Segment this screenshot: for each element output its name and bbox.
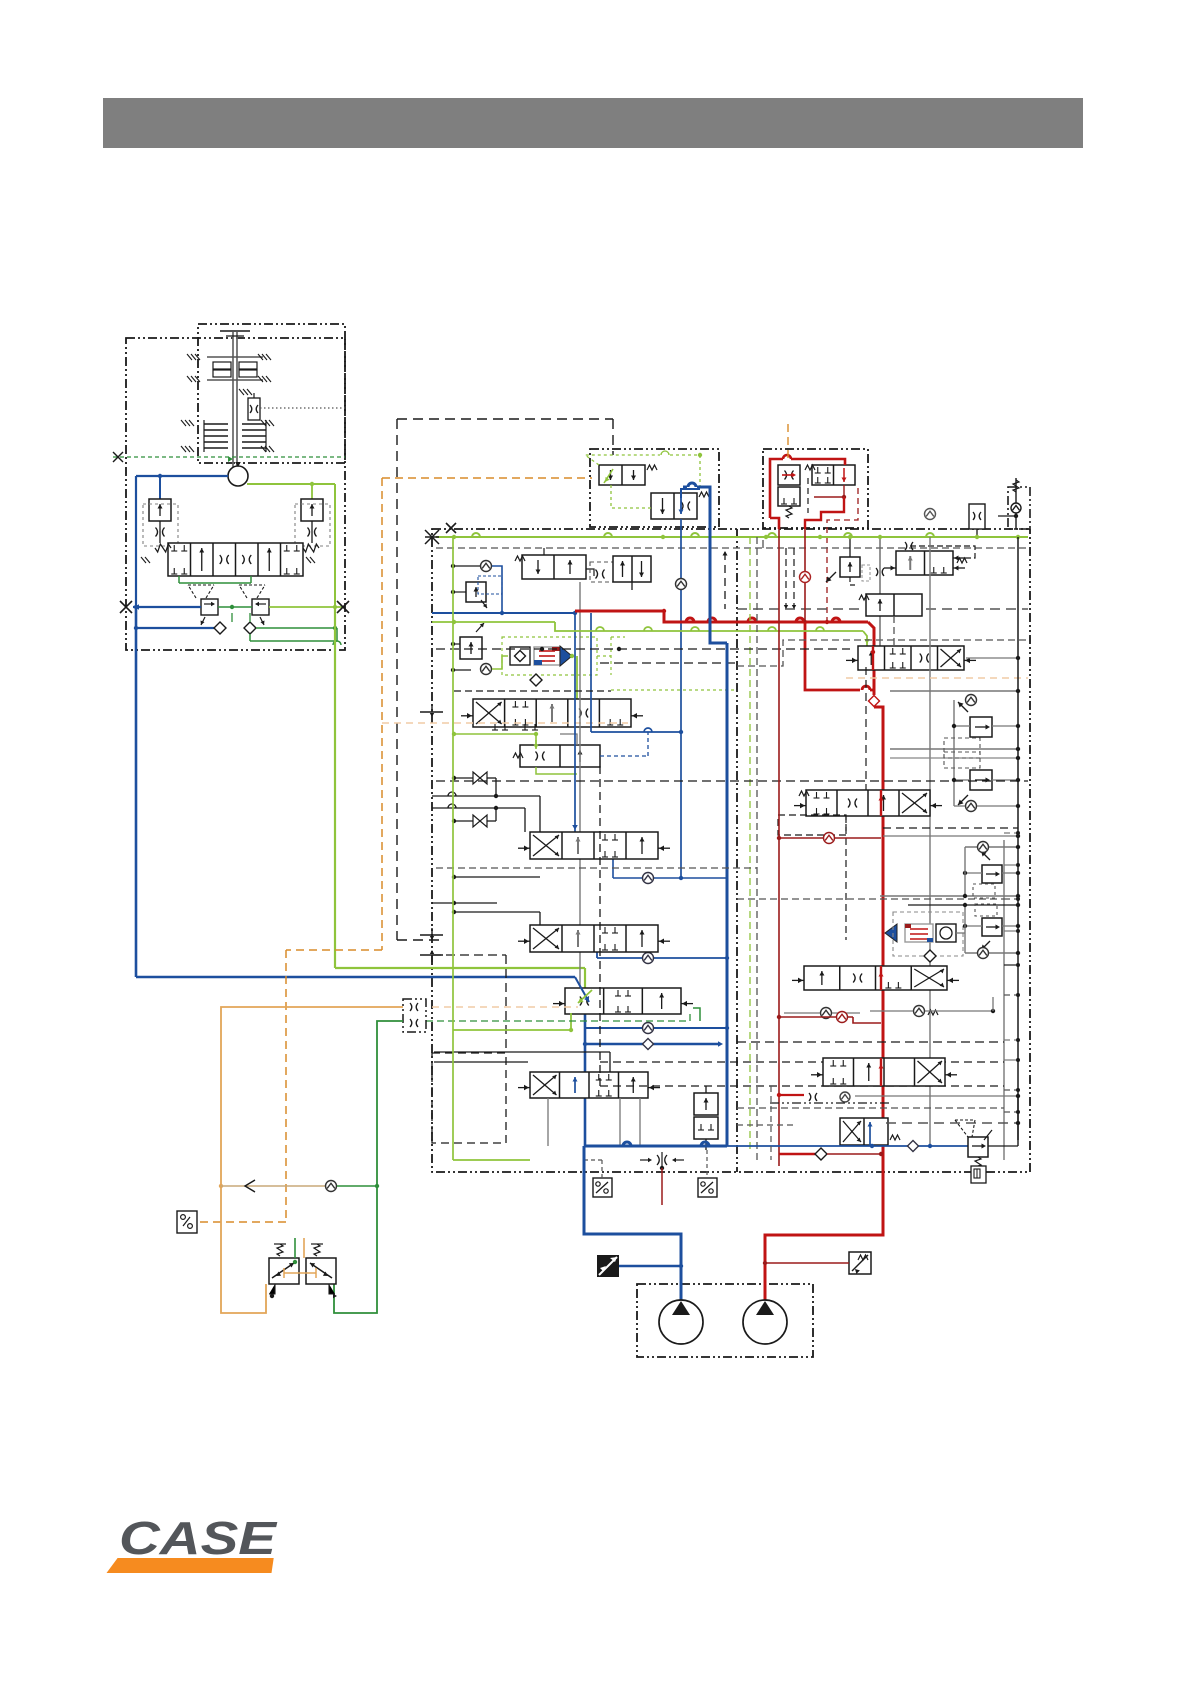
pressure valve P5: [880, 842, 1020, 899]
wire green motor right: [247, 484, 335, 607]
pump unit border: [637, 1284, 813, 1357]
wire black dashed rail 781: [436, 780, 1028, 782]
wire black dashed 1062: [600, 1061, 1004, 1063]
wire green dashed vertical 750: [749, 537, 751, 1150]
x mark main inlet: [446, 523, 456, 533]
wire green dashed rail 690: [611, 689, 737, 691]
wire gray dashed right bottom: [737, 1086, 793, 1160]
wire green dashed K1: [426, 1012, 690, 1021]
pressure valve P7: [955, 1096, 1018, 1169]
pilot valve B1 lower: [778, 487, 800, 518]
wire red branch 1017: [777, 1012, 881, 1024]
wire black dashed V11 down: [865, 667, 867, 790]
pump drive dashed line: [113, 452, 345, 462]
wire black dashed rail 1042: [737, 1041, 1004, 1043]
wire dark red dashed box B: [825, 488, 858, 624]
bowtie valve 2: [452, 806, 498, 827]
wire black dashed 1086: [600, 766, 1004, 1086]
wire gray vertical V2 down: [579, 582, 581, 990]
wire gray dashed rail 609: [737, 608, 1028, 610]
black dashed box lower left: [432, 1053, 506, 1143]
gear train upper: [187, 354, 271, 382]
relief valve left: [143, 499, 178, 546]
wire red thin vertical: [778, 529, 780, 1166]
transmission control valve: [141, 543, 319, 576]
wire green tank return: [232, 613, 337, 630]
wire red branch 1095: [777, 1093, 804, 1097]
main valve block border: [432, 529, 1030, 1172]
swing valve V13: [792, 966, 959, 990]
wire V11 out right: [966, 656, 1020, 1160]
pilot valve B2: [805, 465, 855, 485]
wire blue box A: [681, 489, 700, 498]
relief pair bottom center upper: [694, 1093, 718, 1115]
pilot box B border: [763, 449, 868, 528]
quick coupler K1: [403, 999, 426, 1032]
wire green long left: [335, 607, 585, 988]
wire V8 bottoms: [548, 1098, 640, 1146]
pump right: [743, 1300, 787, 1344]
wire red branch 1154: [779, 1148, 883, 1160]
pressure reducing valve left: [188, 585, 218, 625]
check valve P4: [954, 801, 1020, 812]
transmission block border: [126, 338, 345, 650]
dashed box under V12: [778, 815, 846, 835]
relief pair bottom center lower: [694, 1117, 718, 1139]
bowtie valve 1: [452, 772, 498, 798]
wire blue bottom rail: [584, 1141, 968, 1303]
wire gray V4: [536, 734, 577, 774]
wire green cartridge out: [574, 656, 580, 712]
check valve P2 out: [481, 664, 492, 675]
gear train lower: [181, 420, 274, 452]
lube pilot dotted line: [260, 407, 345, 409]
priority valve V9: [884, 542, 975, 575]
boom valve V12: [794, 790, 942, 816]
dash dot line 1103: [770, 1092, 890, 1103]
check diamonds under V13: [784, 997, 995, 1019]
wire blue dashed V4: [600, 732, 648, 756]
wire gray V5 feeds: [432, 792, 540, 832]
arm valve V5: [518, 832, 670, 859]
pressure valve P3: [944, 702, 1020, 758]
wire red bottom stub: [661, 1168, 663, 1205]
wire orange dashed V7 pilot: [432, 1006, 578, 1008]
wire black dashed to port: [397, 939, 443, 941]
cartridge valve C2: [885, 912, 965, 962]
wire blue long left: [136, 607, 575, 977]
relief valve right: [295, 499, 330, 546]
valve V3 tank glyphs: [492, 724, 538, 730]
check valve green: [244, 622, 256, 634]
asterisk main inlet: [425, 530, 439, 544]
red supply trunk: [575, 609, 883, 1302]
wire orange dashed pilot: [196, 478, 382, 1222]
main valve V3: [461, 699, 643, 727]
wire gray dashed rail 1123: [886, 1121, 1020, 1125]
wire gray dashed rail 899: [737, 898, 1004, 900]
wire green V7 right: [693, 1008, 700, 1021]
wire black 877: [452, 875, 540, 879]
valve V2: [613, 556, 651, 590]
wire green mid rail: [432, 620, 870, 646]
wire green supply rail: [436, 533, 1028, 539]
wire black dashed 955: [432, 955, 506, 1053]
wire blue supply left: [136, 476, 228, 607]
check valve bottom: [326, 1181, 380, 1192]
wire green P2 to cartridge: [492, 656, 508, 669]
gear shaft: [220, 331, 250, 468]
pressure valve P2: [451, 623, 484, 672]
spare valve V7: [553, 988, 693, 1014]
wires black lower left: [434, 1052, 610, 1072]
electric control left: [597, 1255, 683, 1277]
wire orange solid supply: [219, 1007, 403, 1313]
check valve P3: [966, 695, 977, 706]
solenoid box P7: [971, 1166, 986, 1183]
wire black dashed stubs 786 794: [784, 548, 796, 609]
wire blue P1 link: [492, 566, 504, 615]
pressure valve P4: [944, 752, 1020, 805]
throttle cluster bottom: [640, 1152, 684, 1170]
wire green dashed box A: [585, 451, 702, 508]
wire blue valve returns: [597, 952, 729, 964]
wire blue branch A2 down: [676, 519, 687, 878]
port bracket left 2: [420, 928, 443, 962]
wire blue right mid: [613, 858, 727, 884]
cartridge valve C1: [510, 646, 574, 666]
pump left: [659, 1300, 703, 1344]
lube valve: [239, 389, 260, 420]
wire gray dashed top rail: [436, 540, 1028, 548]
wire black dashed pilot left: [397, 419, 613, 940]
gearbox upper border: [198, 324, 345, 463]
wire red thin vertical 805: [800, 529, 811, 622]
wire gray rail 1096: [855, 1094, 1020, 1098]
right inlet box border: [1008, 487, 1030, 529]
inlet filter: [969, 504, 985, 537]
wire gray dashed 1108: [737, 1107, 1004, 1109]
pilot valve A2: [651, 492, 709, 519]
relief valve P0: [826, 535, 870, 585]
check valve blue: [214, 622, 226, 634]
wire green V7 bottom: [453, 1013, 573, 1032]
wire blue green cross V7: [575, 977, 592, 1003]
wire green V4 loop: [452, 732, 538, 745]
brake valve right: [306, 1244, 337, 1298]
wire orange brake stub: [303, 1238, 305, 1258]
wire green under valve: [179, 576, 251, 583]
wheel valve V14: [811, 1058, 957, 1086]
pressure valve P1: [451, 561, 502, 609]
wire green loop bottom: [250, 628, 341, 645]
wire black dashed rail 662b: [600, 662, 737, 664]
wire blue cross link: [591, 613, 681, 732]
wire orange dashed box B: [787, 424, 789, 463]
electric control right: [763, 1252, 871, 1274]
wire black dashed link 725: [723, 551, 728, 609]
wire orange dashed right 678: [846, 677, 1028, 679]
pressure switch SW1: [177, 1211, 197, 1233]
wire black dashed rail 691: [454, 690, 611, 692]
wire gray branch 836: [883, 828, 1020, 838]
port bracket left 1: [420, 706, 443, 717]
wire blue tank return: [134, 626, 214, 630]
inlet check valve: [998, 478, 1021, 529]
wire blue drop to V5: [572, 613, 578, 832]
wire gray dashed vertical 757: [756, 537, 758, 1160]
wire green brake stub: [293, 1238, 297, 1264]
main block divider: [736, 529, 738, 1172]
wire red branch 838: [777, 833, 881, 844]
valve V15: [840, 1118, 900, 1146]
wire orange dashed pilot V3: [382, 722, 628, 724]
collector line right: [1004, 537, 1020, 1140]
wire orange brake bridge: [284, 1268, 316, 1278]
wire orange dashed upper: [382, 477, 592, 479]
aux valve V8: [518, 1072, 660, 1098]
CASE logo text: [119, 1512, 278, 1564]
wire gray dashed rail 648: [737, 640, 1028, 666]
wire green pilot rail: [218, 601, 349, 613]
wire green solid return: [334, 1021, 403, 1313]
wire black dashed box B: [807, 478, 809, 513]
bucket valve V6: [518, 925, 670, 952]
wire black dashed rail 662: [436, 647, 850, 651]
wire gray P3 rails: [890, 689, 1020, 806]
travel pilot valve V1: [515, 548, 614, 582]
green dashed riser: [611, 637, 625, 675]
wire blue to relief: [158, 474, 162, 499]
header gray bar: [103, 98, 1083, 148]
pilot box A border: [590, 449, 719, 527]
hydraulic motor: [228, 462, 248, 486]
wire tan bottom link: [221, 1180, 325, 1192]
wire relief pair: [705, 1086, 707, 1150]
valve V10: [859, 594, 922, 646]
wire red box B loop: [770, 455, 846, 529]
brake valve left: [269, 1244, 299, 1298]
wire gray right risers: [925, 509, 936, 1147]
wire blue pilot rail top: [432, 611, 577, 615]
svg-text:CASE: CASE: [119, 1512, 278, 1564]
CASE logo orange bar: [107, 1558, 274, 1573]
wire black dashed V12 down: [845, 816, 847, 940]
pressure valve P6 right: [908, 903, 1020, 959]
wire blue thick main drop: [683, 483, 727, 1146]
wire gray riser 880: [876, 535, 884, 646]
pilot valve B1: [778, 465, 800, 485]
wire gray V6 feeds: [432, 901, 540, 925]
pilot valve A1: [599, 465, 657, 485]
wire green left drop: [453, 537, 530, 1160]
valve V4: [513, 740, 600, 767]
wire green to relief right: [310, 482, 314, 499]
pressure reducing valve right: [239, 585, 269, 625]
green dashed cartridge box: [502, 637, 611, 686]
pedal box right: [698, 1150, 717, 1197]
wire blue mid drop 1029: [583, 1011, 729, 1146]
wire gray dashed 868: [436, 867, 757, 869]
wire blue pilot rail: [120, 601, 201, 613]
pedal box left: [584, 1160, 612, 1197]
priority valve V11: [846, 646, 976, 670]
